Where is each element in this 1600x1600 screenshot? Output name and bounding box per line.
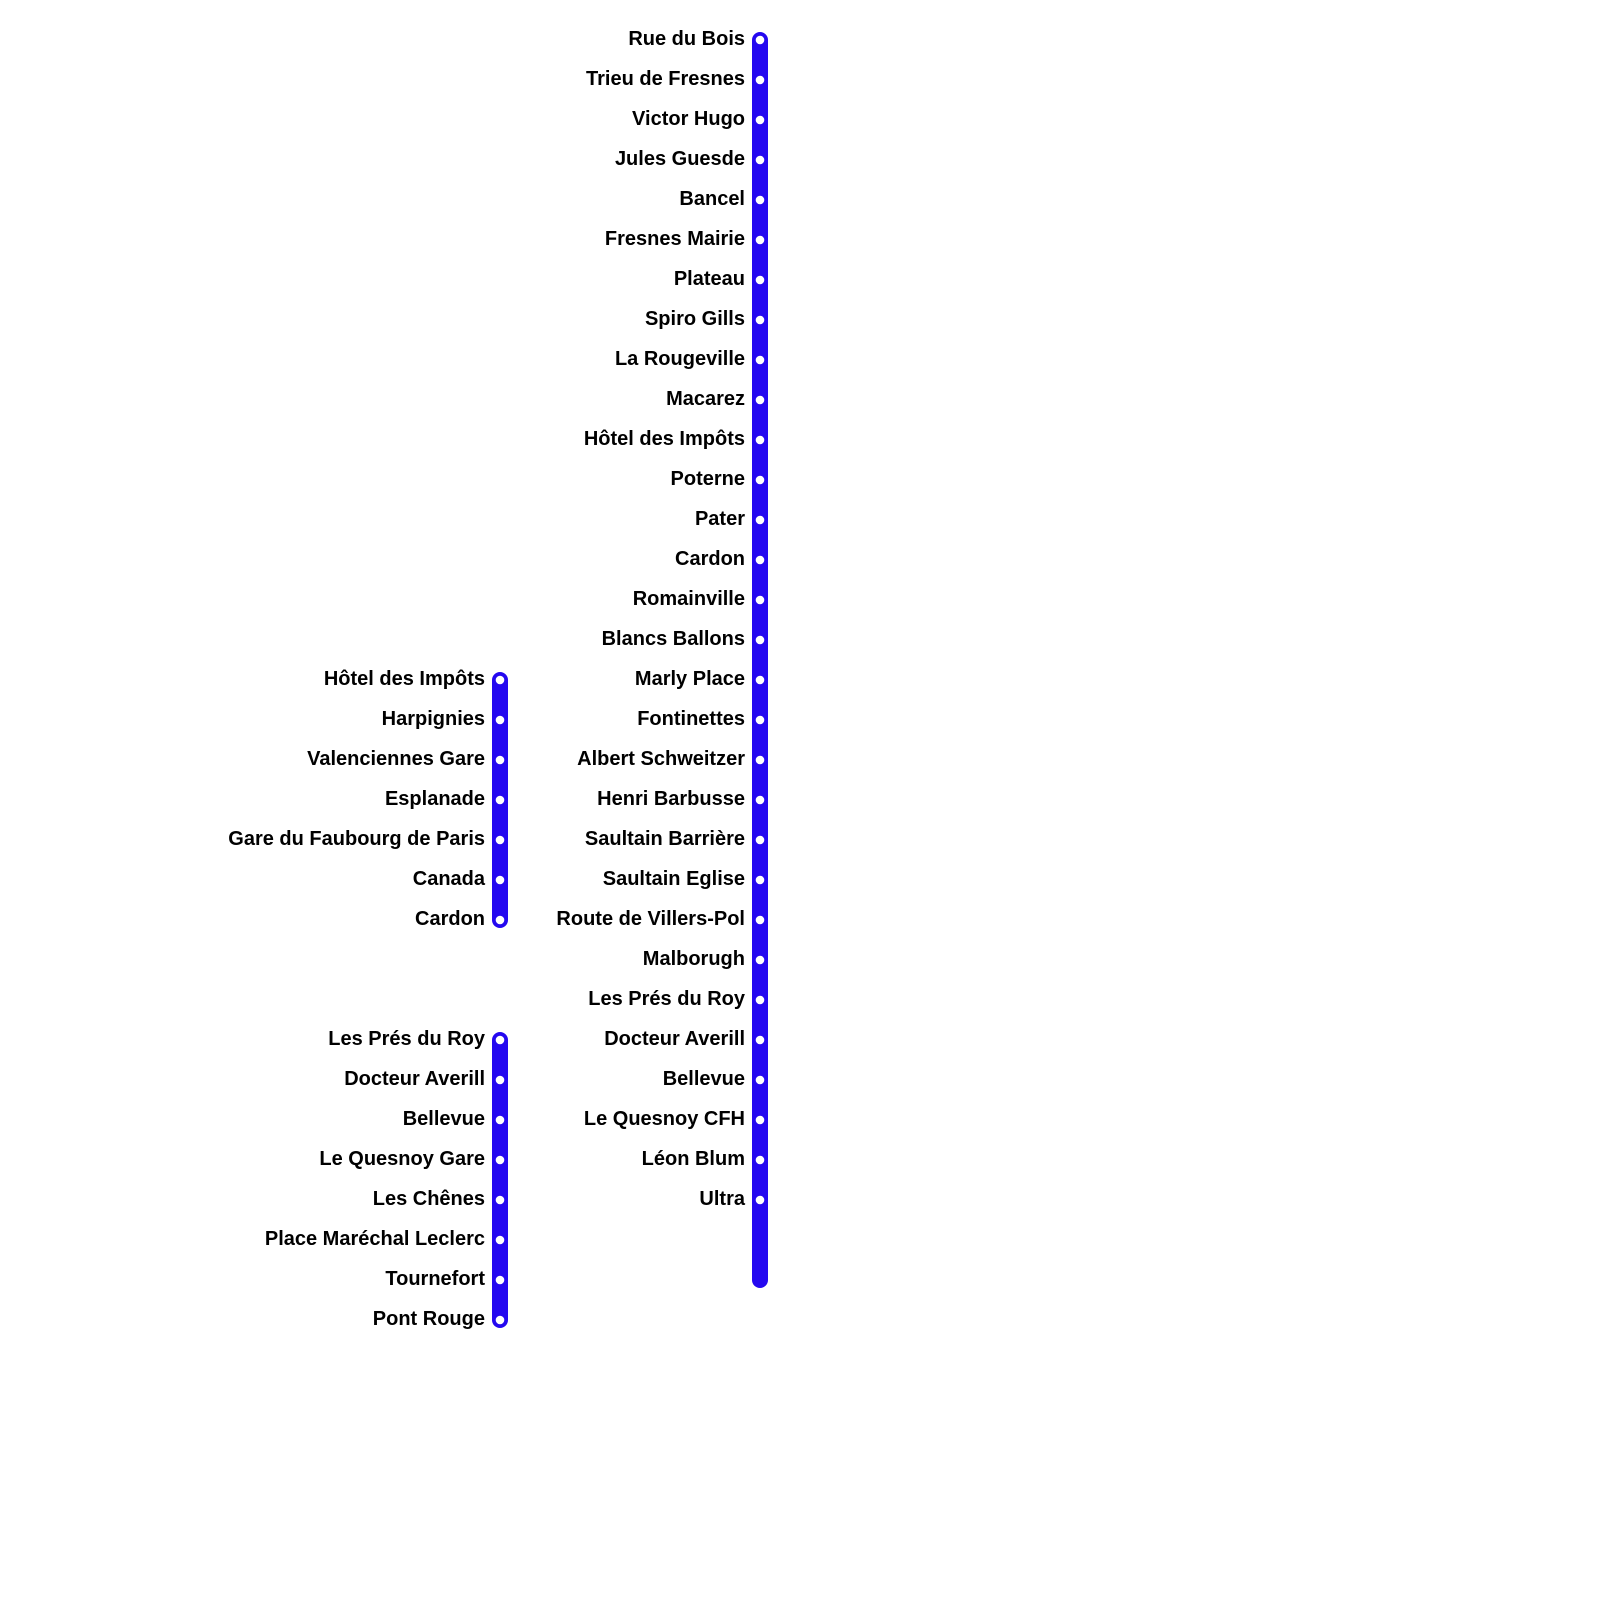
node: station dot Rue du Bois (main line) xyxy=(756,36,765,45)
svg-text:Cardon: Cardon xyxy=(675,548,745,570)
node: station dot Saultain Barrière (main line) xyxy=(756,836,765,845)
node: station dot Saultain Eglise (main line) xyxy=(756,876,765,885)
node: station dot La Rougeville (main line) xyxy=(756,356,765,365)
node: station dot Canada (branch 1) xyxy=(496,876,505,885)
node: station dot Les Chênes (branch 2) xyxy=(496,1196,505,1205)
node: station dot Docteur Averill (main line) xyxy=(756,1036,765,1045)
svg-text:Saultain Barrière: Saultain Barrière xyxy=(585,828,745,850)
wire: branch line segment Les Prés du Roy – Pont Rouge (x=500) xyxy=(492,1040,508,1320)
wire: main line segment Rue du Bois – Ultra (x=760) xyxy=(752,40,768,1280)
node: station dot Pater (main line) xyxy=(756,516,765,525)
wire: branch line segment Hôtel des Impôts – Cardon (x=500) xyxy=(492,680,508,920)
svg-text:La Rougeville: La Rougeville xyxy=(615,348,745,370)
node: station dot Victor Hugo (main line) xyxy=(756,116,765,125)
svg-text:Romainville: Romainville xyxy=(633,588,745,610)
node: station dot Fresnes Mairie (main line) xyxy=(756,236,765,245)
svg-text:Ultra: Ultra xyxy=(699,1188,745,1210)
svg-text:Fontinettes: Fontinettes xyxy=(637,708,745,730)
svg-text:Pater: Pater xyxy=(695,508,745,530)
node: station dot Fontinettes (main line) xyxy=(756,716,765,725)
svg-text:Henri Barbusse: Henri Barbusse xyxy=(597,788,745,810)
node: station dot Pont Rouge (branch 2) xyxy=(496,1316,505,1325)
node: station dot Léon Blum (main line) xyxy=(756,1156,765,1165)
svg-text:Marly Place: Marly Place xyxy=(635,668,745,690)
svg-text:Spiro Gills: Spiro Gills xyxy=(645,308,745,330)
node: station dot Jules Guesde (main line) xyxy=(756,156,765,165)
node: station dot Les Prés du Roy (branch 2) xyxy=(496,1036,505,1045)
node: station dot Romainville (main line) xyxy=(756,596,765,605)
svg-text:Fresnes Mairie: Fresnes Mairie xyxy=(605,228,745,250)
node: station dot Les Prés du Roy (main line) xyxy=(756,996,765,1005)
node: station dot Route de Villers-Pol (main line) xyxy=(756,916,765,925)
node: station dot Trieu de Fresnes (main line) xyxy=(756,76,765,85)
svg-text:Tournefort: Tournefort xyxy=(385,1268,485,1290)
svg-text:Trieu de Fresnes: Trieu de Fresnes xyxy=(586,68,745,90)
svg-text:Hôtel des Impôts: Hôtel des Impôts xyxy=(324,668,485,690)
svg-text:Bellevue: Bellevue xyxy=(403,1108,485,1130)
svg-text:Léon Blum: Léon Blum xyxy=(642,1148,745,1170)
svg-text:Macarez: Macarez xyxy=(666,388,745,410)
svg-text:Malborugh: Malborugh xyxy=(643,948,745,970)
svg-text:Rue du Bois: Rue du Bois xyxy=(628,28,745,50)
svg-text:Les Prés du Roy: Les Prés du Roy xyxy=(328,1028,486,1050)
svg-text:Esplanade: Esplanade xyxy=(385,788,485,810)
node: station dot Esplanade (branch 1) xyxy=(496,796,505,805)
node: station dot Hôtel des Impôts (branch 1) xyxy=(496,676,505,685)
node: station dot Le Quesnoy CFH (main line) xyxy=(756,1116,765,1125)
node: station dot Malborugh (main line) xyxy=(756,956,765,965)
node: station dot Cardon (branch 1) xyxy=(496,916,505,925)
node: station dot Albert Schweitzer (main line) xyxy=(756,756,765,765)
node: station dot Macarez (main line) xyxy=(756,396,765,405)
node: station dot Blancs Ballons (main line) xyxy=(756,636,765,645)
svg-text:Place Maréchal Leclerc: Place Maréchal Leclerc xyxy=(265,1228,485,1250)
node: station dot Poterne (main line) xyxy=(756,476,765,485)
svg-text:Plateau: Plateau xyxy=(674,268,745,290)
svg-text:Bellevue: Bellevue xyxy=(663,1068,745,1090)
node: station dot Le Quesnoy Gare (branch 2) xyxy=(496,1156,505,1165)
svg-text:Jules Guesde: Jules Guesde xyxy=(615,148,745,170)
svg-text:Docteur Averill: Docteur Averill xyxy=(344,1068,485,1090)
node: station dot Cardon (main line) xyxy=(756,556,765,565)
svg-text:Le Quesnoy Gare: Le Quesnoy Gare xyxy=(319,1148,485,1170)
svg-text:Poterne: Poterne xyxy=(671,468,745,490)
svg-text:Gare du Faubourg de Paris: Gare du Faubourg de Paris xyxy=(228,828,485,850)
node: station dot Gare du Faubourg de Paris (branch 1) xyxy=(496,836,505,845)
node: station dot Spiro Gills (main line) xyxy=(756,316,765,325)
node: station dot Bellevue (branch 2) xyxy=(496,1116,505,1125)
svg-text:Route de Villers-Pol: Route de Villers-Pol xyxy=(556,908,745,930)
svg-text:Bancel: Bancel xyxy=(679,188,745,210)
svg-text:Saultain Eglise: Saultain Eglise xyxy=(603,868,745,890)
svg-text:Le Quesnoy CFH: Le Quesnoy CFH xyxy=(584,1108,745,1130)
svg-text:Les Chênes: Les Chênes xyxy=(373,1188,485,1210)
node: station dot Ultra (main line) xyxy=(756,1196,765,1205)
node: station dot Tournefort (branch 2) xyxy=(496,1276,505,1285)
svg-text:Valenciennes Gare: Valenciennes Gare xyxy=(307,748,485,770)
svg-text:Blancs Ballons: Blancs Ballons xyxy=(602,628,745,650)
svg-text:Harpignies: Harpignies xyxy=(382,708,485,730)
svg-text:Hôtel des Impôts: Hôtel des Impôts xyxy=(584,428,745,450)
node: station dot Henri Barbusse (main line) xyxy=(756,796,765,805)
node: station dot Harpignies (branch 1) xyxy=(496,716,505,725)
svg-text:Pont Rouge: Pont Rouge xyxy=(373,1308,485,1330)
svg-text:Canada: Canada xyxy=(413,868,486,890)
node: station dot Marly Place (main line) xyxy=(756,676,765,685)
svg-text:Albert Schweitzer: Albert Schweitzer xyxy=(577,748,745,770)
node: station dot Bellevue (main line) xyxy=(756,1076,765,1085)
svg-text:Victor Hugo: Victor Hugo xyxy=(632,108,745,130)
node: station dot Docteur Averill (branch 2) xyxy=(496,1076,505,1085)
svg-text:Cardon: Cardon xyxy=(415,908,485,930)
node: station dot Plateau (main line) xyxy=(756,276,765,285)
svg-text:Les Prés du Roy: Les Prés du Roy xyxy=(588,988,746,1010)
svg-text:Docteur Averill: Docteur Averill xyxy=(604,1028,745,1050)
node: station dot Place Maréchal Leclerc (branch 2) xyxy=(496,1236,505,1245)
node: station dot Hôtel des Impôts (main line) xyxy=(756,436,765,445)
node: station dot Valenciennes Gare (branch 1) xyxy=(496,756,505,765)
node: station dot Bancel (main line) xyxy=(756,196,765,205)
